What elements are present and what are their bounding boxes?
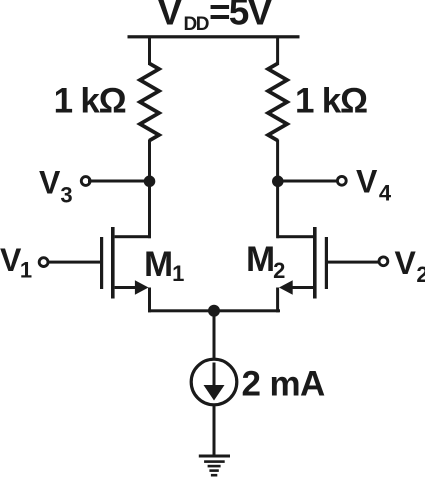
- label VDD=5V: [158, 0, 273, 35]
- current source I1 arrow: [204, 363, 225, 401]
- svg-text:V: V: [158, 0, 183, 33]
- transistor M1 source lead: [115, 286, 141, 289]
- wire rail to R2: [276, 38, 279, 65]
- svg-text:2 mA: 2 mA: [242, 365, 326, 404]
- wire V3 node to terminal: [88, 180, 150, 183]
- transistor M2 channel bar: [313, 227, 317, 299]
- wire rail to R1: [148, 38, 151, 65]
- transistor M2 gate bar: [325, 237, 328, 289]
- current source I1 circle: [191, 359, 237, 405]
- wire current source to ground: [213, 405, 216, 455]
- wire R1 to M1 drain corner: [148, 140, 151, 239]
- transistor M1 gate bar: [100, 237, 103, 289]
- transistor M1 channel bar: [111, 227, 115, 299]
- svg-text:V4: V4: [356, 164, 392, 206]
- wire R2 to M2 drain corner: [276, 140, 279, 239]
- wire V1 terminal to M1 gate: [47, 261, 100, 264]
- node V3 junction dot: [144, 176, 156, 188]
- wire M2 source down: [276, 288, 279, 313]
- svg-text:V1: V1: [0, 242, 32, 283]
- transistor M2 drain lead: [277, 235, 313, 238]
- svg-text:M1: M1: [144, 245, 184, 286]
- node common source junction dot: [208, 305, 220, 317]
- svg-text:DD: DD: [184, 14, 209, 35]
- svg-text:V2: V2: [395, 245, 425, 287]
- wire common source rail: [148, 309, 280, 312]
- svg-text:V3: V3: [39, 164, 73, 207]
- VDD rail: [128, 35, 300, 38]
- terminal V2 open circle: [379, 257, 388, 266]
- transistor M1 drain lead: [115, 235, 151, 238]
- transistor M1 source arrow: [135, 280, 149, 295]
- svg-text:1 kΩ: 1 kΩ: [295, 82, 367, 121]
- wire node to current source: [213, 311, 216, 360]
- wire V4 node to terminal: [278, 180, 338, 183]
- resistor R2: [268, 64, 287, 141]
- svg-text:M2: M2: [246, 240, 285, 283]
- terminal V1 open circle: [39, 258, 48, 267]
- transistor M2 source lead: [287, 286, 313, 289]
- transistor M2 source arrow: [279, 280, 293, 295]
- node V4 junction dot: [272, 176, 284, 188]
- svg-text:=5V: =5V: [209, 0, 273, 33]
- ground: [199, 455, 230, 477]
- svg-text:1 kΩ: 1 kΩ: [54, 82, 126, 121]
- terminal V4 open circle: [337, 176, 346, 185]
- wire M1 source down: [148, 288, 151, 313]
- resistor R1: [140, 64, 159, 141]
- terminal V3 open circle: [81, 177, 90, 186]
- wire V2 terminal to M2 gate: [328, 261, 380, 264]
